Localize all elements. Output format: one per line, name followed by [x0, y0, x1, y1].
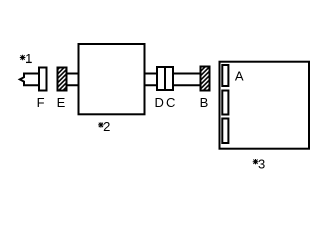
- svg-text:F: F: [37, 95, 45, 110]
- connector D / C pair: [157, 67, 173, 90]
- label *2: [98, 119, 110, 134]
- svg-text:D: D: [155, 95, 164, 110]
- box *3: [220, 62, 310, 149]
- wire box *2 to D: [145, 74, 158, 86]
- divider between D and C: [164, 66, 166, 91]
- label *1: [20, 51, 33, 66]
- svg-text:1: 1: [25, 51, 32, 66]
- port slot 1: [222, 65, 228, 86]
- connector E (hatched): [58, 68, 67, 91]
- svg-text:B: B: [200, 95, 209, 110]
- connector B (hatched): [201, 67, 210, 91]
- svg-text:E: E: [57, 95, 66, 110]
- port slot 2: [222, 91, 228, 115]
- svg-text:A: A: [235, 68, 244, 83]
- connector F: [39, 68, 47, 91]
- svg-text:C: C: [166, 95, 175, 110]
- label *3: [253, 157, 266, 172]
- shaft C to B: [173, 74, 201, 86]
- port slot 3: [222, 119, 228, 144]
- plug P1 (cable plug with break tip): [20, 74, 40, 86]
- svg-text:3: 3: [258, 157, 265, 172]
- box *2: [79, 44, 145, 114]
- wire E to box *2: [67, 74, 79, 86]
- svg-text:2: 2: [103, 119, 110, 134]
